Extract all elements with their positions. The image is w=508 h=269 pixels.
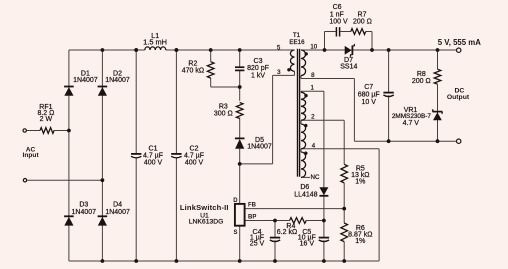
svg-text:1.5 mH: 1.5 mH — [143, 38, 167, 47]
svg-text:NC: NC — [311, 174, 320, 181]
wire pin 4 return loop — [301, 148, 379, 150]
svg-text:LNK613DG: LNK613DG — [189, 219, 224, 226]
output + terminal — [457, 48, 461, 52]
T1 core — [297, 49, 298, 177]
diode D1 — [64, 86, 74, 88]
svg-text:1N4007: 1N4007 — [73, 77, 98, 84]
svg-text:D: D — [233, 198, 238, 204]
capacitor C5 — [319, 237, 329, 239]
node drain junction — [238, 162, 242, 166]
resistor R4 — [290, 218, 307, 224]
inductor L1 — [145, 47, 166, 50]
svg-text:1N4007: 1N4007 — [247, 144, 272, 151]
wire snubber loop C6/R7 — [324, 32, 326, 51]
svg-text:100 V: 100 V — [329, 19, 348, 26]
svg-text:C7: C7 — [364, 84, 373, 91]
svg-text:EE16: EE16 — [289, 39, 305, 46]
node AC-line / bridge — [67, 129, 71, 133]
T1 secondary polarity dot (pin 10) — [305, 52, 308, 55]
wire bridge leg D2/D4 column — [101, 50, 103, 261]
svg-text:1N4007: 1N4007 — [105, 209, 130, 216]
node C7 top — [387, 48, 391, 52]
svg-text:2: 2 — [311, 113, 315, 120]
T1 bias winding polarity dot (pin 1) — [304, 94, 307, 97]
svg-text:LinkSwitch-II: LinkSwitch-II — [180, 203, 229, 212]
svg-text:Output: Output — [447, 94, 470, 101]
node FB divider midpoint — [342, 207, 346, 211]
svg-text:8: 8 — [311, 72, 315, 79]
svg-text:200 Ω: 200 Ω — [353, 19, 372, 26]
T1 winding pins 2-4 — [301, 124, 306, 149]
wire C7 column — [388, 50, 390, 93]
svg-text:1: 1 — [310, 84, 314, 91]
svg-text:300 Ω: 300 Ω — [214, 110, 233, 117]
svg-text:BP: BP — [248, 215, 256, 221]
node D4 bottom — [101, 259, 105, 263]
svg-text:680 µF: 680 µF — [358, 91, 380, 98]
T1 winding 2-4 polarity dot — [304, 124, 307, 127]
wire C4 column — [274, 221, 276, 238]
svg-text:D3: D3 — [79, 202, 88, 209]
T1 primary polarity dot — [287, 68, 290, 71]
svg-text:400 V: 400 V — [185, 160, 204, 167]
node D2 top rail — [101, 48, 105, 52]
node clamp R2/C3 junction — [238, 85, 242, 89]
node BP/C4 — [273, 219, 277, 223]
node R6 bottom — [342, 259, 346, 263]
node pin10/snubber junction — [323, 48, 327, 52]
svg-text:10: 10 — [310, 44, 317, 51]
wire pin 8 secondary return — [301, 78, 354, 80]
wire secondary top rail (pin 10 to + output) — [301, 49, 457, 51]
svg-text:1N4007: 1N4007 — [105, 77, 130, 84]
node C2 top — [175, 48, 179, 52]
wire bottom DC output rail — [354, 140, 456, 142]
node bias/C5 — [322, 219, 326, 223]
svg-text:1%: 1% — [355, 238, 365, 245]
diode D2 — [98, 86, 108, 88]
node C5 bottom — [322, 259, 326, 263]
node C3 top — [238, 48, 242, 52]
node snubber right / D7 cathode — [370, 48, 374, 52]
node C4 bottom — [273, 259, 277, 263]
resistor RF1 — [40, 128, 54, 134]
resistor R6 — [341, 223, 348, 242]
capacitor C7 — [383, 92, 393, 94]
output - terminal — [457, 139, 461, 143]
svg-text:1 kV: 1 kV — [251, 72, 265, 79]
svg-text:LL4148: LL4148 — [294, 192, 317, 199]
op-amp U1 LinkSwitch-II IC body — [235, 204, 245, 226]
svg-text:S: S — [233, 230, 237, 236]
svg-text:SS14: SS14 — [340, 63, 357, 70]
wire AC line input (top) — [27, 130, 40, 132]
T1 winding 4-NC polarity dot — [304, 152, 307, 155]
svg-text:16 V: 16 V — [300, 241, 315, 248]
diode D4 — [98, 215, 108, 217]
node U1 source bottom — [238, 259, 242, 263]
svg-text:820 pF: 820 pF — [247, 65, 269, 72]
resistor R2 — [207, 62, 214, 78]
wire bridge leg D1/D3 column — [68, 50, 70, 261]
capacitor C2 — [171, 153, 181, 155]
svg-text:4: 4 — [312, 142, 316, 149]
diode D6 — [319, 187, 328, 195]
svg-text:Input: Input — [23, 152, 40, 159]
capacitor C4 — [270, 237, 280, 239]
svg-text:FB: FB — [248, 203, 257, 209]
svg-text:C2: C2 — [190, 146, 199, 153]
node VR1 bottom — [436, 139, 440, 143]
svg-text:470 kΩ: 470 kΩ — [182, 68, 204, 75]
node C7 bottom — [387, 139, 391, 143]
node R2 top — [209, 48, 213, 52]
svg-text:4.7 µF: 4.7 µF — [143, 153, 163, 160]
svg-text:25 V: 25 V — [250, 241, 265, 248]
resistor R8 — [434, 69, 441, 84]
svg-text:4.7 V: 4.7 V — [403, 120, 420, 127]
svg-text:3: 3 — [277, 69, 281, 76]
svg-text:R7: R7 — [358, 12, 367, 19]
node R8 top — [436, 48, 440, 52]
node AC-neutral / bridge — [101, 178, 105, 182]
capacitor C3 — [235, 66, 244, 68]
zener VR1 — [433, 111, 443, 113]
AC input top terminal — [23, 129, 26, 132]
wire pin 2 to R5/R6 divider column — [301, 119, 344, 121]
wire top DC rail (bridge output to transformer pin 5) — [69, 49, 145, 51]
svg-text:1 nF: 1 nF — [330, 12, 344, 19]
wire C1 column — [135, 50, 137, 154]
AC input bottom terminal — [23, 179, 26, 182]
svg-text:2MMS230B-7: 2MMS230B-7 — [392, 113, 432, 120]
wire C3/R3/D5/U1 drain column — [239, 50, 241, 67]
svg-text:1N4007: 1N4007 — [72, 209, 97, 216]
svg-text:4.7 µF: 4.7 µF — [184, 153, 204, 160]
resistor R5 — [341, 164, 348, 183]
svg-text:200 Ω: 200 Ω — [412, 78, 431, 85]
svg-text:6.2 kΩ: 6.2 kΩ — [277, 229, 297, 236]
capacitor C1 — [131, 153, 141, 155]
transformer T1 primary winding (pins 5-3) — [290, 50, 294, 71]
svg-text:C3: C3 — [254, 58, 263, 65]
node L1 right — [175, 48, 179, 52]
svg-text:5 V, 555 mA: 5 V, 555 mA — [438, 38, 481, 47]
node C1 top — [134, 48, 138, 52]
svg-text:1%: 1% — [355, 178, 365, 185]
resistor R7 — [351, 29, 366, 35]
svg-text:D4: D4 — [113, 202, 122, 209]
svg-text:5: 5 — [277, 45, 281, 52]
wire primary pin 3 to drain node — [273, 74, 295, 76]
svg-text:C1: C1 — [149, 146, 158, 153]
node C1 bottom — [134, 259, 138, 263]
wire R2 column and bottom jog to clamp node — [210, 50, 212, 62]
wire NC stub — [301, 176, 310, 178]
svg-text:10 V: 10 V — [361, 99, 376, 106]
T1 bias winding pins 1-2 — [301, 92, 306, 120]
diode D7 (schottky) — [345, 46, 352, 55]
wire pin 1 to D6 column — [301, 90, 324, 92]
node C2 bottom — [175, 259, 179, 263]
wire bottom primary ground rail — [69, 260, 379, 262]
svg-text:C6: C6 — [333, 4, 342, 11]
T1 secondary winding pins 10-8 — [301, 50, 306, 76]
diode D5 — [235, 137, 245, 139]
wire BP line — [245, 220, 290, 222]
svg-text:D6: D6 — [300, 184, 309, 191]
wire R8/VR1 column — [437, 50, 439, 69]
diode D3 — [64, 215, 74, 217]
T1 winding pins 4-NC — [301, 152, 306, 177]
wire FB to divider midpoint — [245, 208, 345, 210]
capacitor C6 — [335, 27, 337, 36]
svg-text:2 W: 2 W — [40, 116, 53, 123]
wire primary winding stub — [294, 71, 296, 75]
svg-text:400 V: 400 V — [144, 160, 163, 167]
wire C2 column — [175, 50, 177, 154]
wire AC neutral input (bottom) — [27, 179, 102, 181]
resistor R3 — [236, 103, 243, 119]
